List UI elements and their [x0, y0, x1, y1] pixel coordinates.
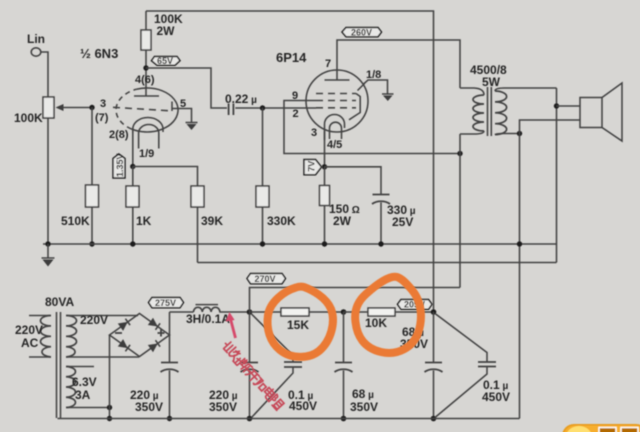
svg-text:5W: 5W	[482, 75, 501, 89]
wire 100K top lead	[145, 11, 147, 30]
power transformer primary winding 220V AC	[29, 315, 51, 317]
wire negative feedback line	[198, 262, 557, 264]
6N3 cathode inner curve	[139, 125, 159, 149]
junction dot 1K on bus	[130, 241, 135, 246]
wire diagonal 270V to 0.1u first	[251, 314, 293, 362]
ground bus lower	[58, 418, 520, 420]
wire speaker hot lead	[557, 105, 581, 107]
6P14 cathode outer curve	[325, 115, 345, 141]
svg-text:2: 2	[293, 108, 299, 120]
capacitor C 68u 350V second	[425, 363, 443, 373]
voltage banner 1.35V	[113, 153, 125, 178]
svg-text:7V: 7V	[307, 161, 317, 172]
wire speaker cold lead	[520, 120, 581, 134]
svg-text:3: 3	[100, 98, 106, 110]
junction dot 68u second on bus	[431, 416, 437, 422]
wire potentiometer bottom to ground bus	[47, 118, 49, 244]
wire cathode2 to 330u	[325, 167, 382, 195]
svg-text:100K: 100K	[14, 111, 43, 125]
node mid filter junction dot	[341, 309, 347, 315]
wire diagonal 0.1u second to bus	[435, 367, 487, 418]
capacitor C 0.22u coupling	[229, 104, 234, 116]
potentiometer wiper arrow	[60, 107, 92, 109]
wire 330u bottom to bus	[380, 203, 382, 245]
svg-text:7: 7	[325, 58, 331, 70]
wire secondary bottom to ground bus	[519, 134, 521, 419]
speaker	[580, 98, 602, 128]
svg-text:6.3V: 6.3V	[72, 375, 97, 389]
wire primary bottom to B plus 270V	[459, 134, 461, 288]
svg-text:80VA: 80VA	[45, 295, 74, 309]
red annotation text	[222, 340, 285, 410]
wire 6P14 cathode lead pin3	[324, 131, 326, 167]
svg-text:0.22 µ: 0.22 µ	[225, 92, 257, 106]
node 65V junction dot	[143, 65, 148, 70]
resistor 10K	[368, 308, 395, 316]
wire 270V node to 220u second filter	[249, 312, 251, 362]
resistor 330K	[256, 186, 269, 207]
voltage banner 7V	[304, 160, 322, 175]
orange highlight ring around 10K	[355, 277, 421, 353]
wire 68u first to bus	[343, 371, 345, 419]
resistor 150R 2W	[320, 186, 330, 206]
junction dot 220u second on bus	[247, 416, 253, 422]
wire bridge minus to ground bus	[109, 335, 111, 419]
resistor 510K	[86, 185, 99, 207]
wire bridge plus to 220u first filter	[169, 335, 171, 362]
svg-text:9: 9	[292, 90, 298, 102]
tube 6P14 envelope	[306, 70, 368, 132]
junction dot secondary ground on bus	[517, 241, 522, 246]
wire choke to 270V node	[219, 311, 249, 313]
junction dot bridge minus on bus	[107, 416, 112, 421]
junction dot screen at transformer	[457, 151, 462, 156]
wire diagonal 0.1u first to bus	[252, 368, 294, 418]
voltage banner 260V	[342, 28, 382, 38]
watermark badge bottom right	[562, 424, 640, 432]
wire 220u second to bus	[249, 371, 251, 419]
wire diagonal 205V to 0.1u second	[435, 314, 487, 362]
wire cathode1 to 39K top	[133, 167, 198, 187]
svg-text:350V: 350V	[135, 400, 163, 414]
wire 205V node down to 68u second	[433, 312, 435, 362]
svg-text:350V: 350V	[350, 400, 378, 414]
wire 15K to mid node	[309, 311, 344, 313]
node secondary bottom junction dot	[517, 131, 522, 136]
bridge rectifier diamond	[110, 314, 170, 357]
voltage banner 65V	[152, 56, 181, 66]
6P14 grid row pin2 dashed	[316, 107, 356, 109]
voltage banner 275V	[149, 298, 184, 309]
svg-text:15K: 15K	[287, 318, 309, 332]
wire 100K bottom to 6N3 plate	[145, 50, 147, 96]
svg-text:68 µ: 68 µ	[352, 387, 374, 401]
wire bridge plus up to filter line	[169, 312, 171, 335]
svg-text:65V: 65V	[157, 56, 173, 66]
svg-text:510K: 510K	[61, 214, 90, 228]
wire mid node to 10K	[344, 311, 369, 313]
svg-text:5: 5	[180, 98, 186, 110]
wire 6P14 plate pin7 to transformer	[337, 40, 460, 88]
wire 270V node to 15K	[250, 311, 282, 313]
tube 6N3 envelope dashed arc	[116, 89, 136, 129]
node grid2 junction dot	[260, 105, 265, 110]
wire junction to 510K top	[91, 108, 93, 186]
bridge diode D2 top-right	[148, 318, 161, 331]
power transformer core	[57, 312, 61, 418]
wire screen grid to B plus	[284, 101, 460, 154]
svg-text:Lin: Lin	[27, 32, 45, 46]
resistor 15K	[281, 308, 309, 316]
bridge minus sign	[115, 332, 122, 334]
power transformer secondary 220V winding	[66, 315, 138, 317]
bridge diode D4 bottom-right	[148, 340, 161, 353]
resistor R 100K 2W plate load	[141, 30, 151, 50]
node cathode2 junction dot	[322, 164, 327, 169]
capacitor C 220u 350V first filter	[161, 363, 179, 373]
voltage banner 270V	[247, 274, 286, 285]
red annotation arrow	[231, 319, 236, 338]
wire 150R bottom to bus	[324, 206, 326, 245]
wire top B+ rail from 100K to right	[146, 11, 434, 312]
wire 1K bottom to bus	[132, 207, 134, 244]
wire B plus 275V line	[170, 311, 194, 313]
wire cathode2 to 150R	[324, 167, 326, 186]
junction dot 220u first on bus	[167, 416, 172, 421]
svg-text:4/5: 4/5	[327, 139, 342, 151]
bridge plus sign	[158, 330, 165, 337]
svg-text:AC: AC	[21, 336, 39, 350]
junction dot 330K on bus	[260, 241, 265, 246]
wire 220u first to bus	[169, 371, 171, 419]
wire 10K to 205V node	[395, 311, 434, 313]
input terminal Lin	[31, 48, 41, 56]
svg-text:330K: 330K	[267, 214, 296, 228]
svg-text:2W: 2W	[333, 214, 352, 228]
svg-text:3: 3	[311, 127, 317, 139]
ground symbol left	[42, 244, 55, 258]
svg-text:1.35V: 1.35V	[115, 153, 125, 177]
node grid1 junction dot	[89, 105, 94, 110]
choke L 3H 0.1A	[194, 307, 220, 312]
svg-text:2(8): 2(8)	[109, 129, 129, 141]
wire 39K bottom to feedback line	[197, 207, 199, 263]
6P14 plate bar	[325, 79, 350, 81]
svg-text:450V: 450V	[482, 390, 510, 404]
6N3 plate bar	[134, 95, 159, 97]
capacitor C 220u 350V second filter	[241, 363, 259, 373]
6P14 heater inner curve pins4/5	[330, 122, 342, 139]
junction dot bus left end	[45, 241, 50, 246]
resistor 39K	[191, 186, 204, 207]
svg-text:2W: 2W	[157, 24, 176, 38]
svg-text:450V: 450V	[289, 399, 317, 413]
capacitor C 68u 350V first	[335, 363, 353, 373]
svg-text:260V: 260V	[351, 28, 372, 38]
tube 6N3 envelope solid arc	[132, 88, 179, 132]
svg-text:10K: 10K	[365, 316, 387, 330]
wire 68u second to bus	[433, 371, 435, 419]
output transformer primary winding	[460, 88, 484, 95]
svg-text:270V: 270V	[255, 274, 276, 284]
svg-text:4(6): 4(6)	[135, 74, 155, 86]
bridge diode D3 bottom-left	[118, 339, 131, 352]
wire grid2 node to 330K	[262, 108, 264, 186]
wire 330K bottom to bus	[262, 207, 264, 244]
6N3 grid dashed line	[113, 107, 170, 111]
svg-text:220V: 220V	[80, 313, 108, 327]
bridge diode D1 top-left	[118, 318, 131, 331]
6P14 grid row screen dashed	[316, 100, 356, 102]
node cathode1 junction dot	[130, 164, 135, 169]
svg-text:1/9: 1/9	[139, 148, 154, 160]
resistor 1K	[126, 186, 139, 207]
junction dot 150R on bus	[322, 241, 327, 246]
6P14 grid row pin9 dashed	[316, 93, 356, 95]
power transformer secondary 6.3V winding	[66, 366, 94, 368]
svg-text:220V: 220V	[15, 323, 43, 337]
svg-text:25V: 25V	[392, 215, 413, 229]
junction dot 510K on bus	[89, 241, 94, 246]
svg-text:39K: 39K	[201, 214, 223, 228]
capacitor C 0.1u 450V first	[284, 362, 302, 367]
wire secondary top to speaker	[556, 88, 558, 263]
wire mid node to 68u first	[343, 312, 345, 362]
node speaker hot junction dot	[554, 103, 559, 108]
svg-text:275V: 275V	[155, 298, 176, 308]
wire 510K bottom to bus	[91, 207, 93, 244]
orange highlight ring around 15K	[268, 287, 333, 357]
svg-text:3A: 3A	[75, 388, 91, 402]
junction dot 68u first on bus	[341, 416, 347, 422]
wire 270V node up to screen feed	[250, 288, 461, 313]
6P14 beam plate	[349, 94, 360, 120]
6N3 cathode outer curve	[133, 118, 163, 133]
wire pin1/8 to ground	[363, 80, 388, 94]
svg-text:1/8: 1/8	[366, 69, 381, 81]
wire Lin to potentiometer top	[41, 52, 48, 97]
capacitor C 330u 25V bypass	[372, 195, 390, 205]
node 270V junction dot	[247, 309, 253, 315]
node heater ground junction dot	[107, 405, 112, 410]
6P14 pin1/8 internal tick	[358, 84, 365, 91]
svg-text:6P14: 6P14	[276, 50, 307, 65]
wire 65V node to coupling cap	[146, 68, 227, 108]
6N3 pin5 cathode bar	[171, 102, 173, 112]
output transformer secondary winding	[495, 88, 557, 91]
svg-text:3H/0.1A: 3H/0.1A	[186, 312, 230, 326]
svg-text:350V: 350V	[209, 400, 237, 414]
wire 6N3 cathode lead	[132, 131, 134, 167]
wire cathode1 to 1K	[132, 167, 134, 187]
ground bus upper	[43, 243, 557, 245]
svg-text:½ 6N3: ½ 6N3	[80, 46, 118, 61]
wire coupling cap to 6P14 grid	[235, 107, 316, 109]
svg-text:(7): (7)	[95, 112, 109, 124]
wire pin5 to ground	[172, 109, 192, 123]
ground symbol pin1/8	[382, 93, 394, 95]
junction dot 330u on bus	[378, 241, 383, 246]
svg-text:1K: 1K	[136, 214, 152, 228]
ground symbol pin5	[186, 122, 198, 124]
output transformer core	[488, 87, 492, 136]
capacitor C 0.1u 450V second	[478, 362, 496, 367]
potentiometer R 100K body	[43, 97, 54, 118]
node 205V junction dot	[431, 309, 437, 315]
voltage banner 205V	[398, 300, 433, 310]
